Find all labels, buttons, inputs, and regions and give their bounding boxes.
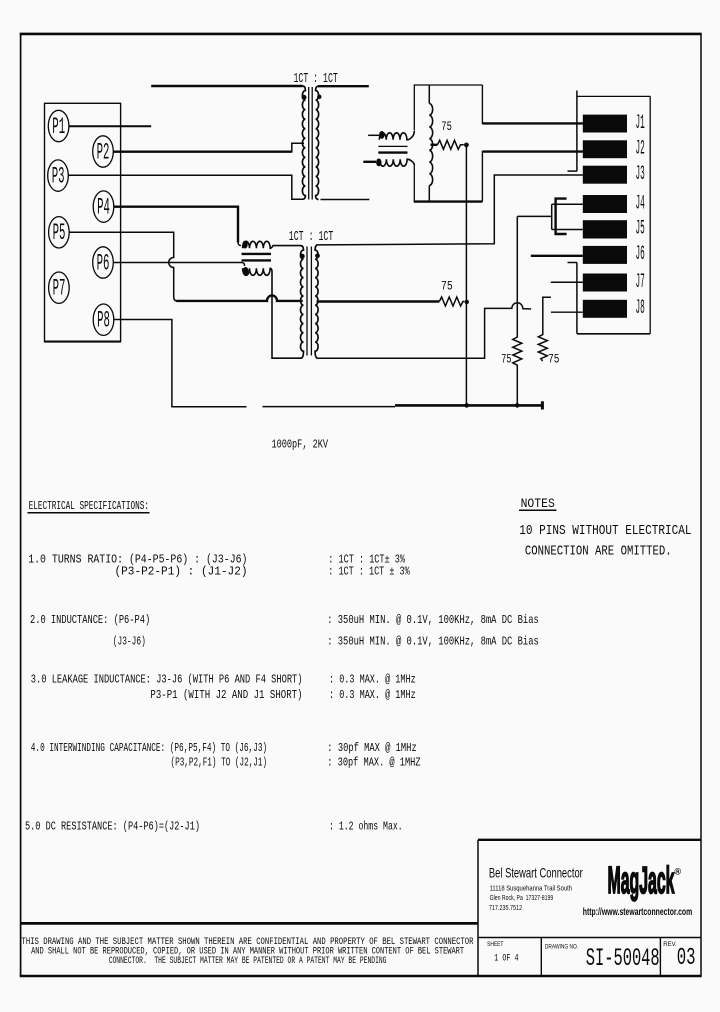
resistor R2 75 ohm horizontal: [439, 297, 464, 306]
resistor RB 75 ohm vertical (top hook, open bottom): [538, 297, 551, 361]
label P4: [97, 194, 110, 220]
wire P3 to T1 primary bottom: [69, 175, 303, 199]
wire J6: [531, 255, 583, 257]
transformer T2 label 1CT:1CT: [289, 230, 334, 245]
spec 3.0 leakage inductance row1: [31, 673, 416, 687]
label RB 75: [548, 351, 559, 366]
label DRAWING NO: [545, 943, 578, 950]
label RA 75: [501, 351, 511, 366]
company name Bel Stewart Connector: [489, 864, 583, 880]
svg-text:http://www.stewartconnector.co: http://www.stewartconnector.com: [583, 907, 692, 918]
choke CM1 core bars: [378, 146, 407, 152]
note line 1: [519, 523, 691, 539]
svg-text:P1: P1: [52, 114, 65, 140]
svg-text:P5: P5: [53, 220, 66, 246]
choke CM1 top coil: [368, 131, 414, 140]
svg-text:REV.: REV.: [663, 941, 677, 948]
svg-text:: 30pf MAX. @ 1MHZ: : 30pf MAX. @ 1MHZ: [327, 755, 420, 769]
svg-text:: 0.3 MAX. @ 1MHz: : 0.3 MAX. @ 1MHz: [329, 673, 416, 687]
disclaimer box: [21, 922, 478, 925]
svg-text:MagJack: MagJack: [608, 860, 675, 902]
address line 2: [490, 895, 554, 902]
svg-text:J5: J5: [636, 218, 645, 241]
MagJack logo: [608, 860, 682, 902]
sheet number 1 OF 4: [494, 953, 518, 964]
wire P4 to choke CM2: [114, 207, 238, 243]
transformer T2 primary winding: [301, 246, 304, 359]
spec 4.0 interwinding capacitance row2: [171, 755, 421, 769]
label R2 75: [441, 279, 453, 294]
label P7: [53, 276, 66, 302]
junction dot bus-RA: [515, 403, 520, 408]
wire P1 stub: [69, 125, 151, 127]
svg-text:1CT : 1CT: 1CT : 1CT: [294, 72, 338, 87]
pin J7: [583, 271, 645, 294]
phone number: [489, 905, 522, 912]
svg-text:(P3-P2-P1) : (J1-J2): (P3-P2-P1) : (J1-J2): [115, 565, 248, 579]
spec 2.0 inductance row1: [30, 613, 539, 627]
revision 03: [677, 945, 696, 972]
label REV: [663, 941, 677, 948]
svg-text:1 OF 4: 1 OF 4: [494, 953, 518, 964]
svg-text:J2: J2: [636, 138, 645, 161]
heading ELECTRICAL SPECIFICATIONS: [28, 499, 150, 513]
pin J1: [583, 112, 645, 135]
svg-text:ELECTRICAL SPECIFICATIONS:: ELECTRICAL SPECIFICATIONS:: [29, 499, 149, 513]
label capacitor value 1000pF 2KV: [272, 437, 329, 451]
website url: [583, 907, 692, 918]
spec 2.0 inductance row2: [113, 635, 539, 649]
svg-text:J7: J7: [636, 271, 645, 294]
svg-text:SI-50048: SI-50048: [586, 944, 660, 973]
transformer T1 core: [309, 87, 313, 200]
svg-text:4.0 INTERWINDING CAPACITANCE:: 4.0 INTERWINDING CAPACITANCE: (P6,P5,F4)…: [31, 741, 267, 755]
svg-text:DRAWING NO.: DRAWING NO.: [545, 943, 578, 950]
svg-text:P8: P8: [97, 308, 110, 334]
pin J8: [583, 297, 645, 320]
wire J5: [552, 229, 583, 231]
svg-text:P7: P7: [53, 276, 66, 302]
label P5: [53, 220, 66, 246]
junction dot R1 out: [464, 143, 469, 148]
transformer T2 core: [307, 247, 311, 356]
ground bus thick right portion: [395, 401, 542, 409]
pin P6: [93, 247, 114, 278]
svg-text:75: 75: [441, 119, 452, 134]
transformer T1 polarity dot left: [302, 95, 307, 100]
svg-text:: 1.2 ohms Max.: : 1.2 ohms Max.: [329, 819, 403, 833]
pin P3: [48, 160, 69, 191]
svg-text:J1: J1: [636, 112, 645, 135]
wire filter right edge to J1: [482, 85, 582, 123]
svg-text:5.0 DC RESISTANCE: (P4-P6)=(J2: 5.0 DC RESISTANCE: (P4-P6)=(J2-J1): [25, 819, 200, 833]
wire R1 out down to bus: [465, 145, 467, 406]
heading NOTES: [519, 496, 557, 511]
choke CM2 top coil: [238, 241, 301, 249]
pin P8: [93, 304, 114, 335]
svg-text:3.0 LEAKAGE INDUCTANCE: J3-J6: 3.0 LEAKAGE INDUCTANCE: J3-J6 (WITH P6 A…: [31, 673, 303, 687]
label P8: [97, 308, 110, 334]
wire choke CM1 bottom out down: [413, 164, 415, 202]
pin J6: [583, 243, 645, 266]
wire T2 secondary bottom toward J8 (with hop): [318, 303, 531, 359]
wire T2 secondary top to J3: [318, 175, 583, 245]
svg-text:CONNECTION ARE OMITTED.: CONNECTION ARE OMITTED.: [525, 544, 672, 560]
wire filter right edge to J2: [482, 152, 582, 202]
wire J7: [551, 281, 583, 283]
svg-text:Glen Rock, Pa 17327-8199: Glen Rock, Pa 17327-8199: [490, 895, 554, 902]
svg-text:2.0 INDUCTANCE: (P6-P4): 2.0 INDUCTANCE: (P6-P4): [30, 613, 150, 627]
pin P2: [93, 136, 114, 167]
svg-text:®: ®: [675, 867, 682, 877]
svg-text:75: 75: [548, 351, 559, 366]
svg-text:P3: P3: [52, 163, 65, 189]
choke CM2 bottom coil: [242, 263, 302, 359]
spec 4.0 interwinding capacitance row1: [31, 741, 417, 755]
title block outline: [478, 840, 701, 976]
svg-text:: 30pf MAX @ 1MHz: : 30pf MAX @ 1MHz: [327, 741, 416, 755]
svg-text:1CT : 1CT: 1CT : 1CT: [289, 230, 334, 245]
disclaimer text line 1: [22, 937, 474, 948]
pin P7: [49, 272, 70, 303]
note line 2: [525, 544, 672, 560]
pin P4: [93, 191, 114, 222]
address line 1: [490, 886, 572, 893]
wire RA top to J4/J5 bracket: [517, 215, 551, 217]
svg-text:75: 75: [501, 351, 511, 366]
transformer T2 polarity dot right: [315, 253, 320, 258]
wire filter bottom edge: [414, 200, 483, 202]
label P6: [97, 250, 110, 276]
pin J2: [583, 138, 645, 161]
svg-text:P2: P2: [97, 139, 110, 165]
label R1 75: [441, 119, 452, 134]
svg-text:: 1CT : 1CT ± 3%: : 1CT : 1CT ± 3%: [328, 565, 410, 579]
svg-text:03: 03: [677, 945, 696, 972]
connector J box outline: [568, 91, 651, 334]
junction dot bus-R1: [464, 403, 469, 408]
wire T1 secondary top lead: [318, 85, 369, 87]
transformer T2 polarity dot left: [300, 254, 305, 259]
pin J4: [583, 192, 645, 215]
connector P1-P8 box: [44, 103, 121, 341]
transformer T1 label 1CT:1CT: [294, 72, 338, 87]
transformer T1 secondary winding: [316, 86, 319, 199]
resistor R1 75 ohm horizontal: [431, 140, 464, 149]
pin J3: [583, 163, 645, 186]
svg-text:: 350uH MIN. @ 0.1V, 100KHz, 8: : 350uH MIN. @ 0.1V, 100KHz, 8mA DC Bias: [327, 613, 539, 627]
wire top net to T1 primary top: [151, 85, 302, 87]
svg-text:717.235.7512: 717.235.7512: [489, 905, 522, 912]
junction dot R2 out: [465, 300, 469, 304]
svg-text:P6: P6: [97, 250, 110, 276]
svg-text:1000pF, 2KV: 1000pF, 2KV: [272, 437, 329, 451]
spec 3.0 leakage inductance row2: [150, 688, 415, 702]
label P3: [52, 163, 65, 189]
choke CM2 core bars: [242, 254, 272, 261]
choke CM1 bottom coil: [363, 159, 414, 167]
transformer T1 polarity dot right: [317, 95, 321, 99]
bracket J4/J5 inner thick: [556, 199, 567, 234]
svg-text:Bel Stewart Connector: Bel Stewart Connector: [489, 864, 583, 880]
svg-text:(P3,P2,F1) TO (J2,J1): (P3,P2,F1) TO (J2,J1): [171, 755, 268, 769]
svg-text:J8: J8: [636, 297, 645, 320]
svg-text:: 350uH MIN. @ 0.1V, 100KHz, 8: : 350uH MIN. @ 0.1V, 100KHz, 8mA DC Bias: [327, 635, 539, 649]
svg-text:J3: J3: [636, 163, 645, 186]
label SHEET: [487, 941, 503, 948]
capacitor 1000pF 2KV (gap in bus): [263, 406, 396, 408]
svg-text:: 0.3 MAX. @ 1MHz: : 0.3 MAX. @ 1MHz: [329, 688, 416, 702]
wire P5 to T2 center tap (with hop over P6 wire): [69, 232, 177, 301]
spec 1.0 turns ratio row1: [28, 553, 405, 567]
wire J8: [551, 311, 583, 313]
svg-text:J6: J6: [636, 243, 645, 266]
wire filter top edge: [414, 84, 483, 86]
wire J4/J5 outer bracket: [551, 204, 553, 229]
svg-text:11118 Susquehanna Trail South: 11118 Susquehanna Trail South: [490, 886, 572, 893]
svg-text:P3-P1 (WITH J2 AND J1 SHORT): P3-P1 (WITH J2 AND J1 SHORT): [150, 688, 302, 702]
disclaimer text line 3: [109, 956, 387, 967]
drawing number SI-50048: [586, 944, 660, 973]
svg-text:CONNECTOR. THE SUBJECT MATTER: CONNECTOR. THE SUBJECT MATTER MAY BE PAT…: [109, 956, 387, 967]
label P2: [97, 139, 110, 165]
wire P6 to choke CM2 lower coil: [114, 262, 243, 264]
svg-text:(J3-J6): (J3-J6): [113, 635, 146, 649]
pin J5: [583, 218, 645, 241]
wire J4: [552, 203, 583, 205]
wire P2 to T1 center tap: [114, 143, 305, 152]
transformer T1 primary winding: [302, 86, 305, 199]
svg-text:75: 75: [441, 279, 453, 294]
wire T1 secondary bottom lead: [321, 199, 370, 201]
pin P1: [48, 110, 69, 141]
svg-text:P4: P4: [97, 194, 110, 220]
wire P8 down to ground bus: [114, 320, 247, 407]
wire T2 primary center tap thick: [176, 295, 302, 301]
spec 1.0 turns ratio row2: [115, 565, 411, 579]
svg-text:J4: J4: [636, 192, 645, 215]
spec 5.0 dc resistance: [25, 819, 403, 833]
autotransformer L1 winding: [429, 85, 432, 202]
svg-text:SHEET: SHEET: [487, 941, 503, 948]
label P1: [52, 114, 65, 140]
wire choke CM1 top out up to filter top: [413, 85, 415, 131]
resistor RA 75 ohm vertical: [513, 216, 522, 405]
svg-text:10 PINS WITHOUT ELECTRICAL: 10 PINS WITHOUT ELECTRICAL: [519, 523, 691, 539]
svg-text:NOTES: NOTES: [521, 496, 555, 511]
pin P5: [49, 217, 70, 248]
transformer T2 secondary winding: [315, 245, 318, 358]
disclaimer text line 2: [31, 946, 464, 957]
wire T2 secondary center tap to R2: [317, 300, 440, 302]
